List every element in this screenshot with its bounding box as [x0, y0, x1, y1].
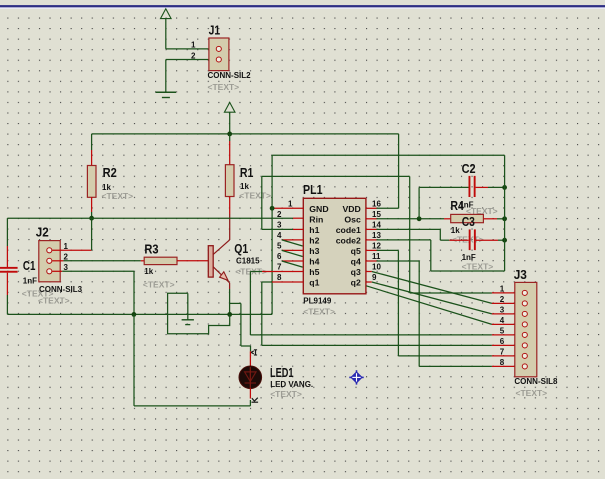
PL1 pin number 12: [372, 241, 381, 250]
svg-text:15: 15: [372, 210, 381, 219]
label LED1: [270, 365, 294, 380]
LED anode pin marker: [251, 350, 257, 356]
svg-text:1nF: 1nF: [23, 277, 37, 286]
PL1 pin 1 stub (GND): [272, 207, 303, 209]
PL1 &lt;TEXT&gt;: [303, 307, 335, 317]
PL1 pin number 2: [277, 210, 282, 219]
node VDD rail / R1 junction: [227, 132, 232, 137]
wire C2 right: [476, 186, 505, 188]
svg-text:h5: h5: [309, 267, 319, 277]
power symbol (above R1): [224, 102, 235, 133]
value PL9149: [303, 296, 332, 305]
label J3: [514, 267, 527, 282]
node Osc / C2 left: [417, 216, 422, 221]
svg-text:Osc: Osc: [344, 214, 361, 224]
PL1 pin number 16: [372, 199, 381, 208]
svg-text:PL9149: PL9149: [303, 296, 332, 305]
connector J2 CONN-SIL3: [39, 241, 60, 282]
svg-text:<TEXT>: <TEXT>: [102, 191, 134, 201]
svg-text:<TEXT>: <TEXT>: [516, 388, 548, 398]
C3 &lt;TEXT&gt;: [462, 262, 494, 272]
PL1 pin number 1: [288, 199, 293, 208]
value 1k (R1): [240, 182, 249, 191]
svg-text:C1: C1: [23, 258, 36, 273]
PL1 pin 6 stub (h4): [282, 260, 304, 262]
top window border line: [0, 0, 605, 9]
LED cathode pin marker: [252, 398, 259, 403]
node R2/J2.1/C1/Rin junction: [89, 216, 94, 221]
wire C3 left stub: [440, 239, 468, 241]
node R4 right / GND loop: [502, 216, 507, 221]
PL1 pin 14 stub + wire code1 to C3: [366, 229, 440, 240]
svg-text:Rin: Rin: [309, 214, 323, 224]
origin marker (blue cross): [349, 370, 363, 384]
label J2: [36, 225, 49, 240]
svg-text:12: 12: [372, 241, 381, 250]
svg-text:2: 2: [277, 210, 282, 219]
svg-text:<TEXT>: <TEXT>: [208, 82, 240, 92]
label J1: [209, 23, 221, 38]
PL1 pin number 15: [372, 210, 381, 219]
svg-text:1nF: 1nF: [462, 253, 476, 262]
svg-text:C2: C2: [462, 161, 476, 176]
ground (top, J1 pin 2): [156, 92, 176, 97]
svg-text:2: 2: [64, 252, 69, 261]
PL1 pin 12 stub + wire q5 to J3 pin 7: [366, 250, 492, 356]
pin number 3 (J2): [64, 263, 69, 272]
capacitor C1 1nF: [0, 267, 18, 273]
label R2: [103, 165, 117, 180]
pin number 8 (J3): [500, 358, 505, 367]
svg-text:1k: 1k: [144, 267, 153, 276]
svg-text:q1: q1: [309, 278, 319, 288]
PL1 pin name Rin: [309, 214, 323, 224]
C1 &lt;TEXT&gt;: [22, 289, 54, 299]
pin number 6 (J3): [500, 337, 505, 346]
wire VDD rail to R2: [91, 134, 93, 166]
pin number 3 (J3): [500, 305, 505, 314]
wire J1 pin 2: [166, 60, 216, 93]
PL1 pin name h3: [309, 246, 319, 256]
PL1 pin 7 stub (h5): [250, 271, 303, 273]
pin number 1 (J1): [191, 41, 196, 50]
svg-text:q2: q2: [351, 278, 361, 288]
J3 &lt;TEXT&gt;: [516, 388, 548, 398]
pin number 5 (J3): [500, 326, 505, 335]
svg-text:14: 14: [372, 220, 381, 229]
PL1 pin 11 stub + wire q4 to J3 pin 8: [366, 261, 492, 366]
node ground rail / Q1 emitter: [227, 312, 232, 317]
svg-text:7: 7: [500, 347, 505, 356]
J2 &lt;TEXT&gt;: [38, 296, 70, 306]
svg-text:code2: code2: [336, 236, 361, 246]
PL1 pin name code2: [336, 236, 361, 246]
wire h1 net down right: [410, 176, 492, 293]
svg-text:4: 4: [500, 316, 505, 325]
svg-text:9: 9: [372, 273, 377, 282]
wire C1 bottom to ground rail: [6, 273, 8, 315]
svg-text:3: 3: [500, 305, 505, 314]
value 1nF (C2): [459, 200, 473, 209]
svg-text:6: 6: [500, 337, 505, 346]
PL1 pin name q2: [351, 278, 361, 288]
value LED VANG.: [270, 380, 313, 389]
wire VDD top rail: [92, 133, 399, 135]
wire J1 pin 1: [166, 48, 216, 50]
wire LED cathode stub: [249, 389, 251, 399]
PL1 pin name Osc: [344, 214, 361, 224]
PL1 pin number 14: [372, 220, 381, 229]
svg-text:Q1: Q1: [234, 241, 248, 256]
wire diagonal to J3 pin 4: [366, 286, 492, 325]
PL1 pin 8 stub (q1): [262, 281, 304, 283]
pin number 1 (J2): [64, 242, 69, 251]
value CONN-SIL3: [39, 285, 83, 294]
label R4: [450, 198, 464, 213]
svg-text:<TEXT>: <TEXT>: [239, 190, 271, 200]
pin number 2 (J3): [500, 295, 505, 304]
label C1: [23, 258, 36, 273]
wire J3 pin 2 stub: [492, 302, 522, 304]
wire LED anode stub: [249, 351, 251, 367]
svg-text:2: 2: [500, 295, 505, 304]
value CONN-SIL8: [514, 377, 558, 386]
PL1 pin 13 stub + wire code2: [366, 240, 431, 271]
PL1 pin 9 stub + wire q2 diagonal to J3 pin 3: [366, 282, 492, 314]
wire C3 right: [476, 239, 505, 241]
value 1nF (C1): [23, 277, 37, 286]
wire J3 pin 5 stub: [492, 334, 522, 336]
svg-text:q5: q5: [351, 246, 361, 256]
svg-text:<TEXT>: <TEXT>: [303, 307, 335, 317]
svg-text:8: 8: [500, 358, 505, 367]
node PL1 pin 1 / GND vertical: [270, 206, 275, 211]
capacitor C2 1nF: [469, 176, 476, 197]
svg-text:h4: h4: [309, 257, 319, 267]
PL1 pin 4 stub (h2): [282, 239, 304, 241]
IC U/PL1 PL9149: [303, 198, 366, 293]
pin number 4 (J3): [500, 316, 505, 325]
value CONN-SIL2: [208, 71, 252, 80]
node C3 right / code2 loop: [502, 238, 507, 243]
LED LED1: [239, 366, 262, 389]
svg-text:PL1: PL1: [303, 182, 323, 197]
svg-text:1: 1: [64, 242, 69, 251]
R3 &lt;TEXT&gt;: [143, 279, 175, 289]
svg-text:8: 8: [277, 273, 282, 282]
ground (middle): [182, 320, 194, 325]
svg-text:CONN-SIL3: CONN-SIL3: [39, 285, 83, 294]
svg-text:10: 10: [372, 263, 381, 272]
label C2: [462, 161, 476, 176]
svg-text:4: 4: [277, 231, 282, 240]
PL1 pin 3 stub + wire h1 up: [262, 176, 304, 229]
svg-text:C1815: C1815: [236, 257, 260, 266]
PL1 pin name q5: [351, 246, 361, 256]
svg-text:<TEXT>: <TEXT>: [38, 296, 70, 306]
wire ground loop: [168, 293, 230, 333]
value 1k (R3): [144, 267, 153, 276]
svg-text:16: 16: [372, 199, 381, 208]
svg-text:1: 1: [500, 284, 505, 293]
PL1 pin name h5: [309, 267, 319, 277]
svg-text:3: 3: [277, 220, 282, 229]
svg-text:7: 7: [277, 263, 282, 272]
value 1k (R4): [451, 226, 460, 235]
svg-text:LED VANG.: LED VANG.: [270, 380, 313, 389]
svg-text:CONN-SIL8: CONN-SIL8: [514, 377, 558, 386]
PL1 pin number 10: [372, 263, 381, 272]
PL1 pin number 7: [277, 263, 282, 272]
PL1 pin 16 stub (VDD): [0, 0, 1, 1]
pin number 7 (J3): [500, 347, 505, 356]
svg-text:<TEXT>: <TEXT>: [462, 262, 494, 272]
wire h5 down to J3 pin 5 rail: [250, 272, 492, 335]
label PL1: [303, 182, 323, 197]
svg-text:1: 1: [288, 199, 293, 208]
wire ground rail: [7, 313, 272, 315]
wire R2 bottom stub: [91, 197, 93, 218]
svg-text:VDD: VDD: [342, 204, 360, 214]
R1 &lt;TEXT&gt;: [239, 190, 271, 200]
svg-text:6: 6: [277, 252, 282, 261]
PL1 pin name code1: [336, 225, 361, 235]
svg-text:code1: code1: [336, 225, 361, 235]
PL1 pin number 9: [372, 273, 377, 282]
wire R4 right: [483, 218, 504, 220]
wire Q1 emitter to LED anode: [230, 303, 251, 351]
svg-text:3: 3: [64, 263, 69, 272]
wire q1 down to J3 pin 6 rail: [262, 282, 492, 345]
power symbol (top left, J1 pin 1 feed): [161, 9, 172, 49]
value C1815: [236, 257, 260, 266]
wire GND right vertical: [504, 155, 506, 271]
svg-text:13: 13: [372, 231, 381, 240]
svg-text:2: 2: [191, 51, 196, 60]
node C2 right / GND loop: [502, 185, 507, 190]
wire h1 net top: [262, 175, 410, 177]
svg-text:R3: R3: [144, 242, 158, 257]
wire J3 pin 3 stub: [492, 313, 522, 315]
connector J3 CONN-SIL8: [515, 282, 537, 376]
svg-text:LED1: LED1: [270, 365, 294, 380]
wire code2 bottom loop to C3 right: [431, 270, 505, 272]
pin number 1 (J3): [500, 284, 505, 293]
svg-text:J1: J1: [209, 23, 221, 38]
resistor R3 1k: [144, 257, 177, 264]
wire J2 pin 2 to R3: [52, 260, 144, 262]
wire VDD rail down to PL1 pin 16: [366, 134, 399, 208]
svg-text:R4: R4: [450, 198, 464, 213]
PL1 pin number 3: [277, 220, 282, 229]
transistor Q1 C1815: [208, 240, 229, 283]
node ground rail / J2.3 / LED loop: [132, 312, 137, 317]
PL1 pin 5 stub (h3): [282, 249, 304, 251]
value 1nF (C3): [462, 253, 476, 262]
wire GND net vertical: [271, 155, 273, 314]
PL1 pin name h4: [309, 257, 319, 267]
label R1: [240, 165, 254, 180]
svg-text:q4: q4: [351, 257, 361, 267]
wire R1 bottom to Q1 collector: [229, 197, 231, 240]
PL1 pin name q4: [351, 257, 361, 267]
wire C2 left to Osc node: [419, 187, 468, 218]
PL1 pin name q1: [309, 278, 319, 288]
svg-text:5: 5: [500, 326, 505, 335]
resistor R2 1k: [87, 166, 96, 198]
value 1k (R2): [102, 183, 111, 192]
wire J3 pin 7 stub: [492, 355, 522, 357]
PL1 pin name VDD: [342, 204, 360, 214]
PL1 pin number 5: [277, 241, 282, 250]
PL1 pin number 4: [277, 231, 282, 240]
Q1 &lt;TEXT&gt;: [235, 266, 267, 276]
svg-text:J3: J3: [514, 267, 527, 282]
C2 &lt;TEXT&gt;: [466, 206, 498, 216]
svg-text:h1: h1: [309, 225, 319, 235]
label R3: [144, 242, 158, 257]
PL1 pin number 6: [277, 252, 282, 261]
PL1 pin 15 stub + wire Osc: [366, 218, 451, 220]
J1 &lt;TEXT&gt;: [208, 82, 240, 92]
PL1 pin number 13: [372, 231, 381, 240]
label Q1: [234, 241, 248, 256]
wire J3 pin 1 stub: [492, 292, 522, 294]
PL1 pin number 8: [277, 273, 282, 282]
wire h4 diagonal: [282, 261, 303, 267]
svg-text:h2: h2: [309, 236, 319, 246]
svg-text:<TEXT>: <TEXT>: [270, 389, 302, 399]
wire J3 pin 4 stub: [492, 323, 522, 325]
PL1 pin name h2: [309, 236, 319, 246]
wire GND net top loop: [272, 154, 505, 156]
wire junction to C1: [7, 218, 91, 267]
pin number 2 (J1): [191, 51, 196, 60]
wire LED cathode to ground rail: [134, 314, 250, 406]
PL1 pin name GND: [309, 204, 328, 214]
svg-text:J2: J2: [36, 225, 49, 240]
svg-text:h3: h3: [309, 246, 319, 256]
label C3: [462, 214, 475, 229]
svg-text:R2: R2: [103, 165, 117, 180]
wire Rin net (J2 junction to PL1 pin 2): [92, 217, 304, 219]
resistor R4 1k: [451, 214, 484, 222]
svg-text:<TEXT>: <TEXT>: [143, 279, 175, 289]
svg-text:C3: C3: [462, 214, 475, 229]
svg-text:11: 11: [372, 252, 381, 261]
resistor R1 1k: [225, 165, 234, 197]
wire J3 pin 8 stub: [492, 365, 522, 367]
capacitor C3 1nF: [469, 229, 476, 250]
R4 &lt;TEXT&gt;: [452, 235, 484, 245]
wire Q1 emitter down: [229, 283, 231, 315]
svg-text:CONN-SIL2: CONN-SIL2: [208, 71, 252, 80]
PL1 pin name h1: [309, 225, 319, 235]
wire J2 pin 1 up to junction: [52, 218, 92, 250]
PL1 pin 10 stub + wire q3 diagonal to J3 pin 2: [366, 272, 492, 304]
wire R3 to Q1 base: [177, 260, 208, 262]
wire h2 diagonal: [282, 240, 303, 246]
wire J2 pin 3 to ground rail: [52, 271, 134, 314]
svg-text:q3: q3: [351, 267, 361, 277]
LED1 &lt;TEXT&gt;: [270, 389, 302, 399]
svg-text:R1: R1: [240, 165, 254, 180]
wire h3 diagonal: [282, 250, 303, 256]
R2 &lt;TEXT&gt;: [102, 191, 134, 201]
PL1 pin name q3: [351, 267, 361, 277]
svg-text:1: 1: [191, 41, 196, 50]
PL1 pin number 11: [372, 252, 381, 261]
svg-text:GND: GND: [309, 204, 328, 214]
connector J1 CONN-SIL2: [209, 38, 229, 71]
pin number 2 (J2): [64, 252, 69, 261]
wire R1 top stub: [229, 134, 231, 165]
svg-text:5: 5: [277, 241, 282, 250]
wire J3 pin 6 stub: [492, 344, 522, 346]
